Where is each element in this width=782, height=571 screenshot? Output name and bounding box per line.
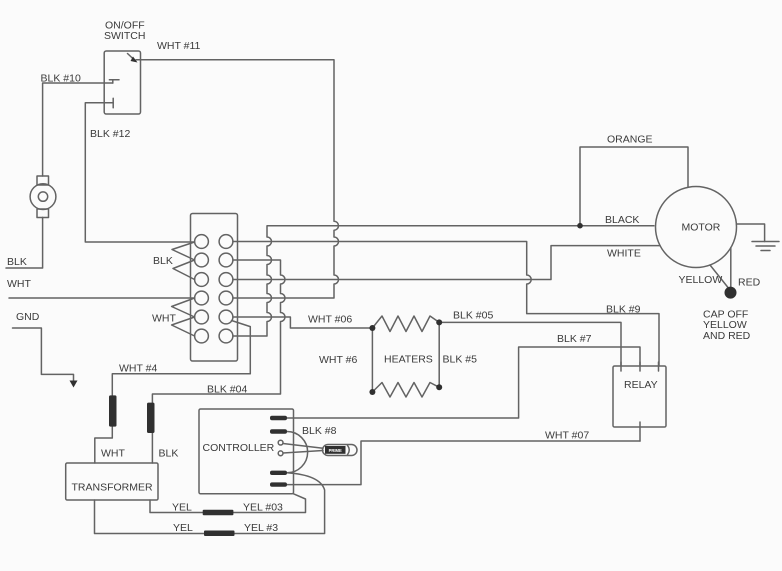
svg-text:TRANSFORMER: TRANSFORMER <box>72 482 154 494</box>
svg-text:BLK #7: BLK #7 <box>557 333 592 345</box>
svg-text:MOTOR: MOTOR <box>682 222 721 234</box>
svg-text:WHT: WHT <box>152 313 176 325</box>
svg-text:WHT #11: WHT #11 <box>157 40 201 52</box>
svg-text:RED: RED <box>738 277 761 289</box>
svg-text:WHT #6: WHT #6 <box>319 354 357 366</box>
svg-text:WHT: WHT <box>7 278 31 290</box>
svg-text:GND: GND <box>16 311 40 323</box>
svg-text:BLK #9: BLK #9 <box>606 304 641 316</box>
svg-text:WHITE: WHITE <box>607 248 641 260</box>
svg-text:BLK: BLK <box>159 448 179 460</box>
svg-text:BLK #05: BLK #05 <box>453 310 493 322</box>
svg-text:BLK #12: BLK #12 <box>90 128 130 140</box>
svg-text:WHT #06: WHT #06 <box>308 314 352 326</box>
svg-text:SWITCH: SWITCH <box>104 30 145 42</box>
svg-text:HEATERS: HEATERS <box>384 354 433 366</box>
svg-text:YELLOW: YELLOW <box>679 274 723 286</box>
svg-text:CONTROLLER: CONTROLLER <box>203 442 275 454</box>
svg-text:BLK: BLK <box>153 255 173 267</box>
svg-text:BLK #8: BLK #8 <box>302 425 337 437</box>
svg-text:RELAY: RELAY <box>624 379 658 391</box>
svg-text:BLK #5: BLK #5 <box>443 354 478 366</box>
svg-text:AND RED: AND RED <box>703 330 751 342</box>
svg-text:PRIME: PRIME <box>329 448 342 453</box>
svg-text:WHT #4: WHT #4 <box>119 363 157 375</box>
svg-text:YEL #03: YEL #03 <box>243 502 283 514</box>
svg-text:YEL: YEL <box>172 502 192 514</box>
svg-text:YEL: YEL <box>173 522 193 534</box>
svg-text:BLK #10: BLK #10 <box>41 73 81 85</box>
svg-text:WHT: WHT <box>101 448 125 460</box>
svg-text:BLK #04: BLK #04 <box>207 384 247 396</box>
svg-text:BLACK: BLACK <box>605 214 639 226</box>
svg-text:WHT #07: WHT #07 <box>545 430 589 442</box>
svg-text:YEL #3: YEL #3 <box>244 522 278 534</box>
svg-text:BLK: BLK <box>7 256 27 268</box>
svg-text:ORANGE: ORANGE <box>607 134 653 146</box>
